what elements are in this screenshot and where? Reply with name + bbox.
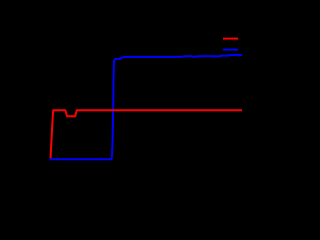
legend blue sample bbox=[223, 49, 238, 51]
red curve bbox=[51, 110, 242, 158]
blue curve bbox=[50, 55, 243, 159]
chart canvas bbox=[0, 0, 258, 199]
legend red sample bbox=[223, 38, 238, 40]
